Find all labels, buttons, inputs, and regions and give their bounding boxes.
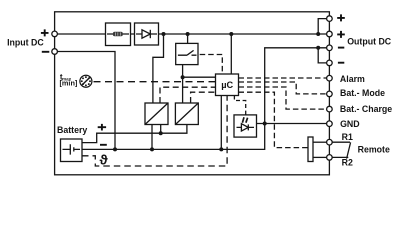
junction dot rail-converter1	[162, 32, 166, 36]
wire external remote switch R1 side	[332, 141, 350, 143]
junction dot rail-jumperT1	[316, 32, 320, 36]
wire battery plus to converters	[82, 125, 187, 143]
terminal output minus 1	[327, 45, 333, 51]
junction dot rail-switch	[186, 32, 190, 36]
dashed uC to Bat.-Mode	[239, 82, 327, 94]
fuse symbol	[113, 32, 123, 37]
wire uC bottom to rail	[220, 96, 222, 150]
device border	[55, 12, 330, 175]
svg-text:Remote: Remote	[358, 145, 390, 155]
wire R1 lead	[313, 141, 327, 143]
svg-text:Battery: Battery	[57, 125, 87, 135]
svg-text:GND: GND	[340, 119, 360, 129]
junction dot batteryplus-converter1	[159, 131, 163, 135]
dashed switch sense line to uC top	[200, 55, 223, 75]
label input plus sign	[41, 29, 49, 36]
wire rail to switch top	[187, 34, 189, 43]
dashed uC to LED	[234, 96, 245, 115]
LED symbol	[237, 126, 255, 128]
LED box	[234, 115, 257, 137]
label input minus sign	[42, 51, 50, 53]
switch box S1	[176, 43, 198, 64]
wire jumper T4	[318, 48, 326, 63]
wire converter1 bottom pin1 to rail	[151, 125, 153, 150]
label output minus sign 1	[338, 47, 344, 49]
wire rail to converter1 top	[153, 34, 164, 103]
diode box V1	[135, 23, 159, 45]
dashed uC to remote contact	[239, 92, 309, 147]
battery box G1	[61, 139, 83, 162]
svg-text:Input DC: Input DC	[7, 37, 44, 47]
svg-text:ϑ: ϑ	[100, 151, 109, 167]
terminal output plus 1	[327, 16, 333, 22]
terminal input minus	[52, 49, 58, 55]
wire R2 lead	[313, 156, 327, 158]
terminal Alarm	[327, 75, 333, 81]
junction dot rail-uC	[229, 32, 233, 36]
label output minus sign 2	[338, 62, 344, 64]
junction dot negrail-jumperT4	[316, 46, 320, 50]
converter box 2	[175, 103, 198, 125]
wire input minus to battery rail	[57, 52, 115, 150]
wire main positive rail	[57, 33, 326, 35]
wire jumper T1	[318, 19, 326, 34]
dashed uC to Bat.-Charge	[239, 87, 327, 109]
svg-text:R1: R1	[342, 132, 353, 142]
wire switch junction to uC left	[183, 76, 216, 78]
dashed uC to Alarm	[239, 77, 327, 79]
label output plus sign 2	[337, 31, 345, 38]
wire converter1 bottom pin2	[160, 125, 162, 134]
terminal Bat.-Charge	[327, 106, 333, 112]
label output plus sign 1	[337, 14, 345, 21]
dashed converter2 control to uC	[191, 92, 216, 103]
svg-text:Alarm: Alarm	[340, 74, 365, 84]
fuse box F1	[106, 23, 131, 46]
svg-text:Bat.- Charge: Bat.- Charge	[340, 104, 392, 114]
converter box 1	[145, 103, 168, 125]
wire rail to uC top	[230, 34, 232, 74]
timer clock symbol	[80, 75, 92, 87]
junction dot rail-converter1bottom	[150, 147, 154, 151]
terminal output minus 2	[327, 60, 333, 66]
label battery plus sign	[98, 124, 106, 131]
junction dot rail-uCbottom	[219, 147, 223, 151]
wire switch bottom to converter2 top	[182, 65, 184, 103]
terminal input plus	[52, 31, 58, 37]
terminal R2	[327, 155, 333, 161]
svg-text:µC: µC	[221, 80, 233, 90]
terminal Bat.-Mode	[327, 91, 333, 97]
junction dot gnd-negrail	[263, 122, 267, 126]
label battery minus sign	[100, 144, 107, 146]
battery symbol	[63, 144, 81, 154]
junction dot switch-uC	[181, 75, 185, 79]
dashed converter1 control to uC	[160, 87, 216, 103]
svg-text:[min]: [min]	[60, 79, 78, 88]
svg-text:Output DC: Output DC	[347, 36, 392, 46]
dashed timer line to uC	[94, 81, 216, 83]
terminal GND	[327, 121, 333, 127]
uC box U1	[216, 74, 239, 96]
svg-text:R2: R2	[342, 157, 353, 167]
terminal R1	[327, 139, 333, 145]
switch blade external remote	[347, 142, 351, 158]
wire negative output rail	[82, 48, 327, 150]
remote contact block	[308, 137, 313, 162]
wire LED to GND terminal	[257, 123, 327, 125]
svg-text:Bat.- Mode: Bat.- Mode	[340, 88, 385, 98]
wire external remote switch R2 side	[332, 156, 348, 158]
terminal output plus 2	[327, 31, 333, 37]
junction dot rail-inputminus	[113, 147, 117, 151]
dashed battery temperature line to uC	[82, 96, 227, 167]
